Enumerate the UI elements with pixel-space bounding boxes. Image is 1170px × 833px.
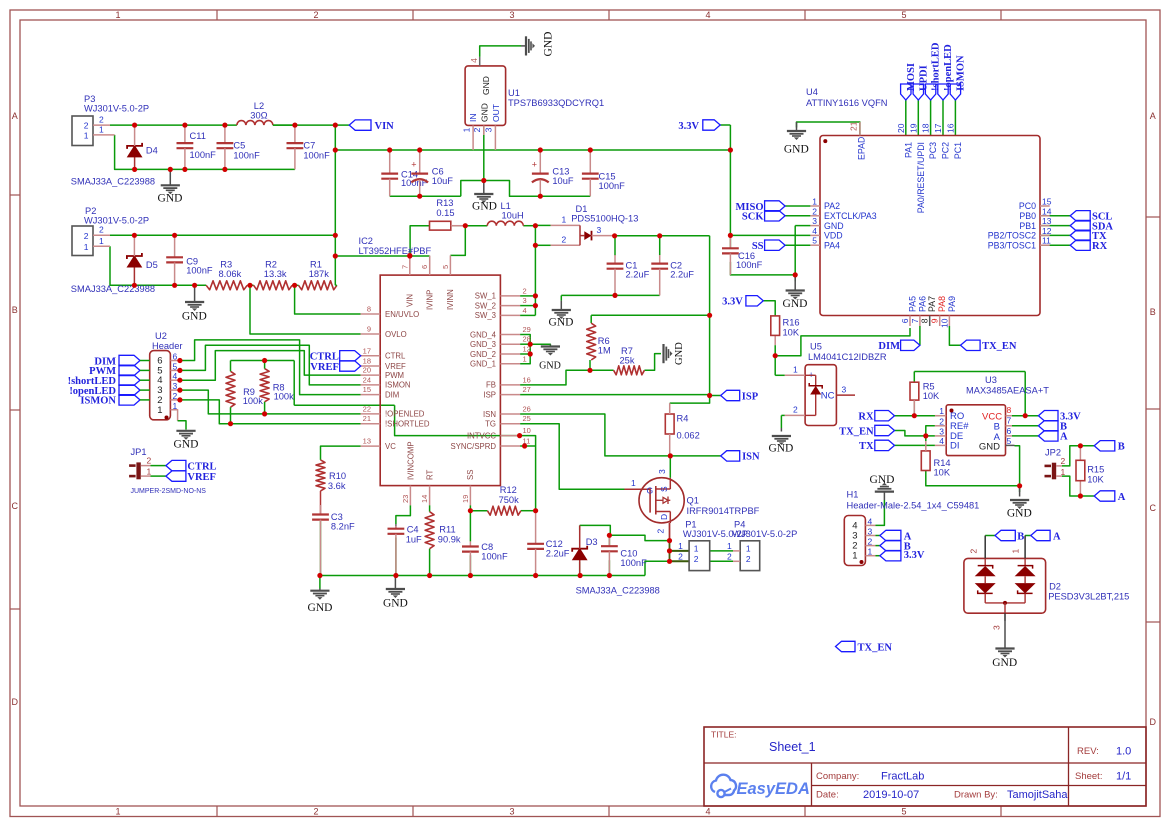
svg-text:Q1: Q1 <box>687 496 699 506</box>
svg-text:0.15: 0.15 <box>436 208 454 218</box>
svg-text:6: 6 <box>420 265 429 269</box>
svg-text:L2: L2 <box>254 101 264 111</box>
svg-text:1: 1 <box>115 10 120 20</box>
svg-text:U2: U2 <box>155 331 167 341</box>
svg-text:D4: D4 <box>146 146 158 156</box>
svg-text:IVINP: IVINP <box>426 290 435 310</box>
svg-text:TX_EN: TX_EN <box>982 341 1017 352</box>
svg-text:Date:: Date: <box>816 790 839 801</box>
svg-text:10: 10 <box>939 318 949 328</box>
svg-text:GND: GND <box>158 193 183 205</box>
svg-text:100nF: 100nF <box>190 150 217 160</box>
svg-text:R2: R2 <box>265 259 277 269</box>
svg-text:C: C <box>1150 503 1157 513</box>
svg-text:PA7: PA7 <box>927 296 937 312</box>
svg-text:TX_EN: TX_EN <box>839 426 874 437</box>
svg-text:+: + <box>532 160 537 170</box>
svg-text:EXTCLK/PA3: EXTCLK/PA3 <box>824 211 877 221</box>
svg-text:LM4041C12IDBZR: LM4041C12IDBZR <box>808 352 887 362</box>
svg-text:8.06k: 8.06k <box>219 269 242 279</box>
svg-text:GND: GND <box>383 598 408 610</box>
svg-text:2.2uF: 2.2uF <box>546 549 570 559</box>
svg-text:SW_1: SW_1 <box>475 292 496 301</box>
svg-text:TX: TX <box>859 441 874 452</box>
svg-text:R11: R11 <box>439 525 455 535</box>
svg-text:C: C <box>12 501 19 511</box>
svg-text:3: 3 <box>523 296 527 305</box>
svg-text:B: B <box>994 422 1000 433</box>
svg-text:DIM: DIM <box>878 341 900 352</box>
svg-text:GND: GND <box>481 76 491 95</box>
svg-text:JUMPER-2SMD-NO-NS: JUMPER-2SMD-NO-NS <box>131 488 207 495</box>
svg-text:19: 19 <box>461 495 470 503</box>
svg-text:L1: L1 <box>501 201 511 211</box>
svg-text:GND: GND <box>768 443 793 455</box>
svg-text:1: 1 <box>523 354 527 363</box>
svg-text:REV:: REV: <box>1077 746 1099 757</box>
svg-text:P2: P2 <box>85 206 96 216</box>
svg-text:2: 2 <box>793 405 798 415</box>
svg-text:C13: C13 <box>552 167 569 177</box>
svg-text:B: B <box>1150 307 1156 317</box>
svg-text:2: 2 <box>694 554 699 564</box>
svg-text:TX_EN: TX_EN <box>858 642 893 653</box>
svg-text:14: 14 <box>1042 206 1052 216</box>
svg-text:25k: 25k <box>620 356 635 366</box>
svg-text:ISN: ISN <box>742 452 760 463</box>
svg-text:100nF: 100nF <box>186 265 213 275</box>
svg-text:3: 3 <box>868 527 873 537</box>
svg-text:SW_2: SW_2 <box>475 301 496 310</box>
svg-text:B: B <box>12 305 18 315</box>
svg-text:D1: D1 <box>576 204 588 214</box>
svg-text:IC2: IC2 <box>359 236 373 246</box>
svg-text:1: 1 <box>852 551 857 562</box>
svg-text:PA6: PA6 <box>917 296 927 312</box>
svg-text:30Ω: 30Ω <box>250 111 267 121</box>
svg-text:U3: U3 <box>985 375 997 385</box>
svg-text:8.2nF: 8.2nF <box>331 522 355 532</box>
svg-text:2: 2 <box>84 121 89 131</box>
svg-text:5: 5 <box>901 10 906 20</box>
svg-text:100k: 100k <box>274 392 295 402</box>
svg-text:GND: GND <box>992 657 1017 669</box>
svg-text:R6: R6 <box>598 336 610 346</box>
svg-text:D2: D2 <box>1049 582 1061 592</box>
svg-text:GND: GND <box>549 317 574 329</box>
svg-text:1: 1 <box>99 124 104 134</box>
svg-text:9: 9 <box>367 325 371 334</box>
svg-text:3: 3 <box>812 216 817 226</box>
svg-text:2: 2 <box>727 551 732 561</box>
svg-text:2: 2 <box>939 416 944 426</box>
svg-text:4: 4 <box>812 226 817 236</box>
svg-text:2.2uF: 2.2uF <box>670 270 694 280</box>
svg-text:D5: D5 <box>146 260 158 270</box>
svg-text:H1: H1 <box>847 490 859 500</box>
svg-text:3: 3 <box>842 385 847 395</box>
svg-text:10uH: 10uH <box>502 211 524 221</box>
svg-text:3.3V: 3.3V <box>904 550 925 561</box>
svg-text:R7: R7 <box>621 346 633 356</box>
svg-text:3.3V: 3.3V <box>678 121 699 132</box>
svg-text:WJ301V-5.0-2P: WJ301V-5.0-2P <box>84 104 149 114</box>
svg-text:1: 1 <box>99 236 104 246</box>
svg-text:PA5: PA5 <box>908 296 918 312</box>
svg-text:4: 4 <box>523 306 527 315</box>
svg-text:GND: GND <box>472 201 497 213</box>
svg-text:D3: D3 <box>586 537 598 547</box>
svg-text:0.062: 0.062 <box>677 431 700 441</box>
svg-text:10: 10 <box>523 426 531 435</box>
svg-text:PA0/RESET/UPDI: PA0/RESET/UPDI <box>916 142 926 213</box>
svg-text:11: 11 <box>1042 236 1051 246</box>
svg-text:2019-10-07: 2019-10-07 <box>863 789 919 801</box>
svg-text:9: 9 <box>930 318 940 323</box>
svg-text:3: 3 <box>509 807 514 817</box>
svg-text:7: 7 <box>400 265 409 269</box>
svg-text:A: A <box>1150 111 1156 121</box>
svg-text:13: 13 <box>1042 216 1052 226</box>
svg-text:EasyEDA: EasyEDA <box>737 780 810 798</box>
svg-text:3: 3 <box>939 426 944 436</box>
svg-text:IVINCOMP: IVINCOMP <box>406 441 415 480</box>
svg-text:1: 1 <box>868 547 873 557</box>
svg-text:GND: GND <box>674 342 685 365</box>
svg-text:100nF: 100nF <box>599 181 626 191</box>
svg-text:VIN: VIN <box>406 294 415 307</box>
svg-text:TPS7B6933QDCYRQ1: TPS7B6933QDCYRQ1 <box>508 98 604 108</box>
svg-text:187k: 187k <box>309 269 330 279</box>
svg-text:GND: GND <box>784 144 809 156</box>
svg-text:100nF: 100nF <box>481 552 508 562</box>
svg-text:27: 27 <box>523 385 531 394</box>
svg-text:2: 2 <box>99 115 104 125</box>
svg-text:2: 2 <box>313 10 318 20</box>
svg-text:UPDI: UPDI <box>918 65 929 91</box>
svg-text:PA9: PA9 <box>947 296 957 312</box>
svg-text:1: 1 <box>694 544 699 554</box>
svg-text:VC: VC <box>385 442 396 451</box>
svg-text:2: 2 <box>313 807 318 817</box>
svg-text:1: 1 <box>1061 467 1066 477</box>
svg-text:PB2/TOSC2: PB2/TOSC2 <box>988 231 1036 241</box>
svg-text:D: D <box>659 514 669 520</box>
svg-text:2: 2 <box>472 127 482 132</box>
svg-text:IRFR9014TRPBF: IRFR9014TRPBF <box>687 506 760 516</box>
svg-text:1: 1 <box>678 541 683 551</box>
svg-text:PESD3V3L2BT,215: PESD3V3L2BT,215 <box>1048 592 1129 602</box>
svg-text:10K: 10K <box>783 328 800 338</box>
svg-text:Sheet:: Sheet: <box>1075 771 1102 782</box>
svg-text:IN: IN <box>468 114 478 123</box>
svg-text:20: 20 <box>896 123 906 133</box>
svg-text:NC: NC <box>821 391 835 402</box>
svg-text:A: A <box>1053 531 1061 542</box>
svg-text:JP2: JP2 <box>1045 447 1061 457</box>
svg-text:10K: 10K <box>934 468 951 478</box>
svg-text:OVLO: OVLO <box>385 330 407 339</box>
svg-text:VREF: VREF <box>187 472 216 483</box>
svg-text:2: 2 <box>1061 456 1066 466</box>
svg-text:B: B <box>1118 442 1125 453</box>
svg-text:2: 2 <box>84 231 89 241</box>
svg-text:100nF: 100nF <box>736 260 763 270</box>
svg-text:MAX3485AEASA+T: MAX3485AEASA+T <box>966 386 1049 396</box>
svg-text:1: 1 <box>1011 549 1021 554</box>
svg-text:U5: U5 <box>810 342 822 352</box>
svg-text:2: 2 <box>812 206 817 216</box>
svg-text:1: 1 <box>462 127 472 132</box>
svg-text:25: 25 <box>523 414 531 423</box>
svg-text:2: 2 <box>147 456 152 466</box>
svg-text:10uF: 10uF <box>552 176 574 186</box>
svg-text:1: 1 <box>939 406 944 416</box>
svg-text:LT3952HFE#PBF: LT3952HFE#PBF <box>359 246 432 256</box>
svg-text:5: 5 <box>1007 436 1012 446</box>
svg-text:MOSI: MOSI <box>906 63 917 91</box>
svg-text:7: 7 <box>910 318 920 323</box>
svg-text:2: 2 <box>969 549 979 554</box>
svg-text:1: 1 <box>793 365 798 375</box>
svg-text:4: 4 <box>705 10 710 20</box>
svg-text:PC3: PC3 <box>928 142 938 159</box>
svg-text:17: 17 <box>933 123 943 133</box>
svg-text:1: 1 <box>157 405 162 416</box>
svg-text:PA4: PA4 <box>824 240 840 250</box>
svg-text:GND_4: GND_4 <box>470 330 497 339</box>
svg-text:RX: RX <box>858 412 874 423</box>
svg-text:Header-Male-2.54_1x4_C59481: Header-Male-2.54_1x4_C59481 <box>847 501 980 511</box>
svg-text:GND: GND <box>543 32 555 57</box>
svg-text:CTRL: CTRL <box>187 461 216 472</box>
svg-text:Drawn By:: Drawn By: <box>954 790 998 801</box>
svg-text:A: A <box>1118 492 1126 503</box>
svg-text:C12: C12 <box>546 539 563 549</box>
svg-text:EN/UVLO: EN/UVLO <box>385 310 419 319</box>
svg-text:2: 2 <box>678 551 683 561</box>
svg-text:A: A <box>12 111 18 121</box>
svg-text:24: 24 <box>363 375 371 384</box>
svg-text:5: 5 <box>441 265 450 269</box>
svg-text:PA2: PA2 <box>824 201 840 211</box>
svg-text:21: 21 <box>849 121 859 131</box>
svg-text:2: 2 <box>99 225 104 235</box>
svg-text:C8: C8 <box>481 542 493 552</box>
svg-text:GND_1: GND_1 <box>470 360 496 369</box>
svg-text:10K: 10K <box>923 391 940 401</box>
svg-text:GND: GND <box>539 361 561 372</box>
svg-text:29: 29 <box>523 325 531 334</box>
svg-text:VREF: VREF <box>310 362 339 373</box>
svg-text:2: 2 <box>523 286 527 295</box>
svg-text:OUT: OUT <box>491 104 501 122</box>
svg-text:C3: C3 <box>331 512 343 522</box>
svg-text:1M: 1M <box>598 346 611 356</box>
svg-text:GND: GND <box>182 311 207 323</box>
svg-text:PA1: PA1 <box>903 142 913 158</box>
svg-text:23: 23 <box>401 495 410 503</box>
svg-text:16: 16 <box>945 123 955 133</box>
svg-text:VIN: VIN <box>375 121 395 132</box>
svg-text:21: 21 <box>363 414 371 423</box>
svg-text:ISMON: ISMON <box>385 381 411 390</box>
svg-text:R12: R12 <box>500 485 517 495</box>
svg-text:TG: TG <box>485 420 496 429</box>
svg-text:18: 18 <box>921 123 931 133</box>
svg-text:4: 4 <box>705 807 710 817</box>
svg-text:90.9k: 90.9k <box>438 534 461 544</box>
svg-text:U4: U4 <box>806 87 818 97</box>
svg-text:GND: GND <box>308 602 333 614</box>
svg-text:5: 5 <box>901 807 906 817</box>
svg-text:EPAD: EPAD <box>857 137 867 160</box>
svg-text:15: 15 <box>363 385 371 394</box>
svg-text:1: 1 <box>631 478 636 488</box>
svg-text:22: 22 <box>363 404 371 413</box>
svg-text:TamojitSaha: TamojitSaha <box>1007 789 1068 801</box>
svg-text:2: 2 <box>746 554 751 564</box>
svg-text:10K: 10K <box>1087 475 1104 485</box>
svg-text:7: 7 <box>1007 416 1012 426</box>
svg-text:ISP: ISP <box>742 391 759 402</box>
svg-text:3.3V: 3.3V <box>722 297 743 308</box>
svg-text:SCK: SCK <box>742 212 764 223</box>
svg-text:SMAJ33A_C223988: SMAJ33A_C223988 <box>71 177 155 187</box>
svg-text:GND_2: GND_2 <box>470 350 496 359</box>
svg-text:GND_3: GND_3 <box>470 340 496 349</box>
svg-text:ISN: ISN <box>483 410 496 419</box>
svg-text:1: 1 <box>84 130 89 140</box>
svg-text:100nF: 100nF <box>233 150 260 160</box>
svg-text:PB3/TOSC1: PB3/TOSC1 <box>988 240 1036 250</box>
svg-text:GND: GND <box>783 298 808 310</box>
svg-text:100nF: 100nF <box>303 150 330 160</box>
svg-text:3: 3 <box>657 469 667 474</box>
svg-text:R16: R16 <box>783 318 800 328</box>
svg-text:10uF: 10uF <box>432 176 454 186</box>
svg-text:SS: SS <box>466 470 475 480</box>
svg-text:C5: C5 <box>233 141 245 151</box>
svg-text:R4: R4 <box>677 414 689 424</box>
svg-text:RX: RX <box>1092 241 1108 252</box>
svg-text:4: 4 <box>868 516 873 526</box>
svg-text:1uF: 1uF <box>406 534 422 544</box>
svg-text:1: 1 <box>812 197 817 207</box>
svg-text:Company:: Company: <box>816 771 859 782</box>
svg-text:TITLE:: TITLE: <box>711 730 737 740</box>
svg-text:PC0: PC0 <box>1019 201 1036 211</box>
svg-text:D: D <box>1150 717 1157 727</box>
svg-text:JP1: JP1 <box>131 447 147 457</box>
svg-text:Sheet_1: Sheet_1 <box>769 740 816 754</box>
svg-text:1/1: 1/1 <box>1116 771 1131 783</box>
svg-text:RT: RT <box>425 470 434 480</box>
svg-text:R1: R1 <box>310 259 322 269</box>
svg-text:R13: R13 <box>436 198 453 208</box>
svg-text:FB: FB <box>486 381 496 390</box>
svg-text:!OPENLED: !OPENLED <box>385 410 425 419</box>
svg-text:ISP: ISP <box>483 390 496 399</box>
svg-text:R15: R15 <box>1087 465 1104 475</box>
svg-text:3: 3 <box>484 127 494 132</box>
svg-text:C6: C6 <box>432 167 444 177</box>
svg-text:DIM: DIM <box>385 390 399 399</box>
svg-text:PB0: PB0 <box>1019 211 1036 221</box>
svg-text:2: 2 <box>868 537 873 547</box>
svg-text:PC2: PC2 <box>941 142 951 159</box>
svg-text:R10: R10 <box>329 471 346 481</box>
svg-text:13: 13 <box>363 437 371 446</box>
svg-text:PWM: PWM <box>385 371 404 380</box>
svg-text:8: 8 <box>367 305 371 314</box>
svg-text:P1: P1 <box>685 520 696 530</box>
svg-text:2.2uF: 2.2uF <box>626 270 650 280</box>
svg-text:CTRL: CTRL <box>385 352 406 361</box>
svg-text:1.0: 1.0 <box>1116 746 1131 758</box>
svg-text:20: 20 <box>363 366 371 375</box>
svg-text:C4: C4 <box>407 525 419 535</box>
svg-text:S: S <box>659 486 669 492</box>
svg-text:B: B <box>1017 531 1024 542</box>
svg-text:3: 3 <box>509 10 514 20</box>
svg-text:PDS5100HQ-13: PDS5100HQ-13 <box>571 214 638 224</box>
svg-text:100nF: 100nF <box>620 558 647 568</box>
svg-text:P3: P3 <box>84 94 95 104</box>
svg-text:3.6k: 3.6k <box>328 481 346 491</box>
svg-text:GND: GND <box>870 474 895 486</box>
svg-text:4: 4 <box>939 436 944 446</box>
svg-text:A: A <box>1060 432 1068 443</box>
svg-text:4: 4 <box>469 58 479 63</box>
svg-text:PA8: PA8 <box>937 296 947 312</box>
svg-text:8: 8 <box>1007 405 1012 415</box>
svg-text:1: 1 <box>727 541 732 551</box>
svg-text:15: 15 <box>1042 197 1052 207</box>
svg-text:6: 6 <box>900 318 910 323</box>
svg-text:ATTINY1616 VQFN: ATTINY1616 VQFN <box>806 98 887 108</box>
svg-text:8: 8 <box>920 318 930 323</box>
svg-text:R3: R3 <box>220 259 232 269</box>
svg-text:VREF: VREF <box>385 362 406 371</box>
svg-text:3: 3 <box>597 225 602 235</box>
svg-text:IVINN: IVINN <box>446 289 455 310</box>
svg-text:6: 6 <box>1007 426 1012 436</box>
svg-text:R5: R5 <box>923 382 935 392</box>
svg-text:+: + <box>411 160 416 170</box>
svg-text:GND: GND <box>174 439 199 451</box>
svg-text:17: 17 <box>363 346 371 355</box>
svg-text:PB1: PB1 <box>1019 221 1036 231</box>
svg-text:ISMON: ISMON <box>80 396 116 407</box>
svg-text:FractLab: FractLab <box>881 771 924 783</box>
svg-text:18: 18 <box>363 357 371 366</box>
svg-text:R14: R14 <box>934 458 951 468</box>
svg-text:SYNC/SPRD: SYNC/SPRD <box>451 442 497 451</box>
svg-text:2: 2 <box>656 529 666 534</box>
svg-text:1: 1 <box>115 807 120 817</box>
svg-text:SW_3: SW_3 <box>475 311 496 320</box>
svg-text:3: 3 <box>992 625 1002 630</box>
svg-text:GND: GND <box>824 221 844 231</box>
svg-text:1: 1 <box>562 215 567 225</box>
svg-text:C11: C11 <box>190 131 206 141</box>
svg-text:SMAJ33A_C223988: SMAJ33A_C223988 <box>576 586 660 596</box>
svg-text:PC1: PC1 <box>953 142 963 159</box>
svg-text:SMAJ33A_C223988: SMAJ33A_C223988 <box>71 284 155 294</box>
svg-text:Header: Header <box>152 341 183 351</box>
svg-text:INTVCC: INTVCC <box>467 431 496 440</box>
